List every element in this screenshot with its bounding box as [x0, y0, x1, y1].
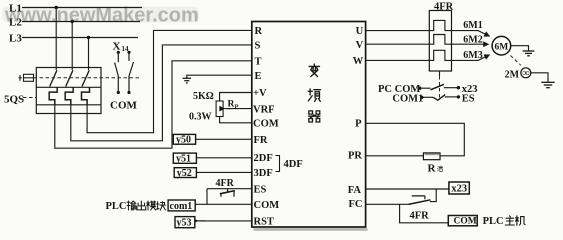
svg-text:FA: FA — [348, 185, 362, 196]
svg-text:x23: x23 — [451, 183, 467, 194]
svg-text:6M1: 6M1 — [463, 20, 482, 31]
svg-text:ES: ES — [462, 94, 475, 105]
svg-text:L2: L2 — [9, 17, 22, 29]
svg-text:COM: COM — [110, 100, 138, 112]
svg-text:y52: y52 — [177, 168, 192, 179]
svg-text:COM: COM — [254, 200, 280, 211]
svg-text:y53: y53 — [177, 218, 192, 229]
svg-text:X: X — [113, 41, 121, 53]
svg-text:+V: +V — [253, 88, 267, 99]
svg-text:ES: ES — [254, 184, 267, 195]
svg-text:0.3W: 0.3W — [189, 112, 212, 123]
svg-text:RST: RST — [254, 217, 274, 228]
svg-text:L3: L3 — [9, 33, 22, 45]
svg-text:y50: y50 — [176, 135, 191, 146]
svg-text:5KΩ: 5KΩ — [193, 91, 214, 102]
svg-text:5QS: 5QS — [4, 94, 24, 106]
svg-text:V: V — [356, 40, 364, 51]
svg-text:T: T — [255, 57, 262, 68]
svg-text:4DF: 4DF — [284, 159, 303, 170]
svg-text:U: U — [356, 26, 364, 37]
svg-text:R: R — [228, 100, 235, 110]
svg-text:COM1: COM1 — [392, 94, 423, 105]
svg-text:2M: 2M — [505, 69, 520, 80]
svg-text:4FR: 4FR — [216, 178, 235, 189]
svg-text:PLC: PLC — [106, 201, 127, 212]
svg-text:4FR: 4FR — [410, 211, 430, 222]
svg-text:R: R — [428, 163, 437, 175]
svg-text:W: W — [353, 56, 364, 67]
svg-text:PR: PR — [348, 150, 362, 161]
svg-text:VRF: VRF — [253, 104, 275, 115]
svg-text:FR: FR — [254, 135, 268, 146]
svg-text:P: P — [235, 104, 239, 111]
svg-text:E: E — [255, 71, 262, 82]
svg-text:L1: L1 — [9, 3, 22, 15]
svg-text:∞: ∞ — [522, 68, 529, 79]
svg-text:6M: 6M — [495, 42, 509, 52]
svg-text:COM: COM — [454, 217, 477, 227]
svg-text:P: P — [355, 118, 362, 129]
svg-text:3DF: 3DF — [254, 168, 273, 179]
svg-text:6M2: 6M2 — [463, 35, 482, 46]
svg-text:14: 14 — [122, 45, 130, 53]
svg-text:2DF: 2DF — [254, 153, 273, 164]
svg-text:FC: FC — [349, 199, 363, 210]
svg-text:6M3: 6M3 — [463, 50, 482, 61]
svg-text:R: R — [255, 26, 263, 37]
svg-text:COM: COM — [253, 119, 279, 130]
svg-text:com1: com1 — [170, 201, 193, 212]
svg-text:4FR: 4FR — [434, 2, 454, 13]
svg-text:PLC: PLC — [483, 216, 504, 227]
svg-text:S: S — [255, 41, 261, 52]
svg-text:y51: y51 — [176, 154, 191, 165]
